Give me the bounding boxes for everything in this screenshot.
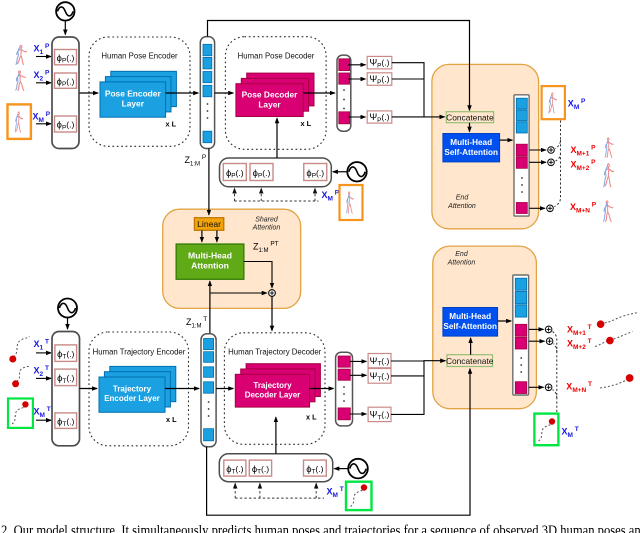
svg-text:Human Pose Decoder: Human Pose Decoder: [238, 52, 315, 61]
plus node pose M+N: [547, 205, 554, 212]
pose figure 1: [16, 45, 27, 64]
Shared Attention container: [163, 209, 301, 308]
svg-text:Human Pose Encoder: Human Pose Encoder: [101, 52, 178, 61]
Psi-P box 1: [367, 56, 392, 69]
svg-text:ϕP(.): ϕP(.): [253, 167, 271, 180]
dashed residual from XM traj box to plus nodes: [553, 332, 557, 412]
trajectory sketch M (end attention): [539, 424, 552, 441]
arrow Concatenate up to MHSA (bottom): [470, 338, 472, 355]
wire column to encoder: [80, 92, 99, 94]
wire Z top to Concatenate (long top wire): [208, 21, 470, 111]
wire encoder to Z traj column: [165, 388, 199, 390]
trajectory sketch M: [12, 407, 25, 425]
predicted trajectory sketch 2: [595, 332, 633, 347]
green frame XM trajectory (input): [8, 399, 33, 428]
Trajectory Encoder Layer stack: [99, 366, 176, 412]
svg-text:Trajectory: Trajectory: [113, 385, 152, 394]
phi-T box 1: [55, 345, 77, 362]
Human Pose Decoder dashed container: [225, 37, 326, 150]
wire decoder to output tokens (traj): [310, 388, 334, 390]
phi-P row box 1: [223, 164, 246, 181]
Multi-Head Self-Attention box (top): [443, 134, 500, 162]
Multi-Head Self-Attention box (bottom): [443, 308, 498, 337]
Psi-T box 1: [368, 354, 391, 368]
svg-text:Trajectory: Trajectory: [253, 381, 292, 390]
svg-text:ϕP(.): ϕP(.): [57, 119, 75, 132]
predicted pose figure 1: [605, 138, 613, 158]
pose decoder output token column: [337, 55, 351, 131]
Psi-P box 3: [367, 111, 392, 123]
svg-text:Multi-Head: Multi-Head: [188, 251, 232, 261]
dashed residual from XM pose box to plus nodes: [555, 121, 560, 149]
Concatenate box (bottom): [447, 355, 493, 367]
wire Z traj bottom to Concatenate (long bottom wire): [207, 369, 470, 515]
dashed XM feed risers (trajectory): [234, 484, 236, 499]
predicted pose figure 3: [604, 201, 613, 222]
End Attention container (pose, top right): [432, 64, 539, 228]
orange frame XM pose (decoder query): [340, 185, 363, 220]
svg-text:ϕT(.): ϕT(.): [57, 348, 74, 361]
plus node traj M+N: [545, 384, 552, 391]
arrow X1 to phi: [36, 56, 51, 58]
arrow XM to phi-T: [36, 419, 51, 421]
Z pose memory column: [200, 37, 214, 149]
wire Z traj to trajectory decoder: [216, 388, 233, 390]
wire Z pose bottom to Linear: [208, 149, 210, 215]
wires Psi-T outputs to Concatenate (bottom): [391, 361, 445, 415]
wire decoder to output tokens: [303, 92, 335, 94]
wire Z to pose decoder: [215, 92, 234, 94]
arrows Linear to Multi-Head Attention: [201, 231, 203, 242]
Psi-P box 2: [367, 73, 392, 86]
svg-text:End: End: [455, 251, 469, 258]
green frame XM trajectory (end attention): [534, 414, 558, 446]
green frame XM trajectory (decoder query): [346, 482, 372, 510]
phi-P box 1: [55, 50, 77, 65]
arrow X2 to phi: [36, 82, 51, 84]
Psi-T box 2: [368, 369, 391, 384]
arrows tokens to plus nodes (pose outputs): [529, 149, 546, 151]
Human Trajectory Decoder dashed container: [224, 333, 325, 445]
trajectory sketch M (decoder query): [351, 490, 364, 507]
svg-text:Multi-Head: Multi-Head: [450, 138, 492, 147]
svg-text:Human Trajectory Decoder: Human Trajectory Decoder: [228, 348, 322, 357]
end attention token column (top): [514, 95, 529, 216]
Trajectory Decoder Layer stack: [235, 364, 320, 407]
arrows tokens to plus nodes (traj outputs): [529, 328, 544, 330]
svg-text:ϕT(.): ϕT(.): [306, 463, 323, 476]
sine generator (pose decoder query): [347, 162, 366, 181]
svg-text:Pose Decoder: Pose Decoder: [242, 90, 299, 100]
dashed XM feed risers (pose): [234, 189, 236, 202]
svg-text:Attention: Attention: [191, 261, 229, 271]
svg-text:Self-Attention: Self-Attention: [444, 148, 498, 157]
svg-text:Human Trajectory Encoder: Human Trajectory Encoder: [93, 348, 186, 357]
svg-text:x L: x L: [301, 119, 312, 128]
trajectory sketch 2: [17, 366, 31, 382]
wire MHA to plus node: [244, 262, 272, 288]
Z pose tokens: [203, 44, 212, 142]
svg-text:ϕT(.): ϕT(.): [57, 372, 74, 385]
sine generator (trajectory decoder query): [348, 459, 368, 479]
plus node pose M+2: [548, 159, 555, 166]
svg-text:Decoder Layer: Decoder Layer: [245, 391, 301, 400]
wire phi-T row up into trajectory decoder stack: [275, 417, 277, 454]
plus node traj M+1: [545, 326, 552, 333]
arrow sine to phi row: [333, 171, 347, 173]
arrows tokens to Psi-P: [348, 64, 365, 66]
plus node (shared attention): [269, 290, 276, 297]
phi-P box 3: [55, 116, 77, 132]
svg-text:Shared: Shared: [255, 217, 279, 224]
pose figure M (decoder query): [346, 192, 353, 213]
predicted trajectory sketch 1: [605, 313, 639, 324]
svg-text:x L: x L: [166, 120, 177, 129]
End Attention container (trajectory, bottom right): [433, 246, 537, 409]
svg-text:x L: x L: [166, 415, 177, 424]
svg-text:Attention: Attention: [447, 203, 476, 210]
svg-text:ϕP(.): ϕP(.): [57, 52, 75, 65]
svg-text:ϕP(.): ϕP(.): [226, 167, 244, 180]
dashed XM feed horizontal (trajectory): [235, 497, 324, 499]
phi-P row box 2: [250, 164, 273, 181]
wire phi-T column to encoder: [80, 388, 98, 390]
svg-text:Pose Encoder: Pose Encoder: [105, 89, 162, 99]
predicted trajectory sketch 3: [600, 380, 627, 388]
wire sine to phi-T column: [67, 318, 69, 329]
orange frame XM pose (end attention): [542, 86, 565, 119]
svg-text:ϕP(.): ϕP(.): [57, 75, 75, 88]
phi-P row container (decoder query input): [220, 158, 332, 187]
Human Trajectory Encoder dashed container: [89, 332, 189, 446]
arrow XM to phi: [36, 123, 51, 125]
pose figure 2: [16, 71, 26, 91]
sine generator (trajectory input): [58, 299, 77, 318]
phi-T row box 2: [249, 460, 271, 476]
phi-T box 3: [55, 413, 77, 429]
Concatenate box (top): [446, 112, 493, 123]
trajectory decoder output token column: [336, 352, 353, 426]
arrow MHSA to token column (bottom): [498, 320, 512, 322]
wire plus node down to trajectory decoder: [271, 296, 273, 330]
phi-T row box 1: [224, 460, 246, 476]
svg-text:Linear: Linear: [197, 219, 221, 229]
svg-text:Attention: Attention: [447, 260, 476, 267]
phi-T box 2: [55, 369, 77, 386]
svg-text:Multi-Head: Multi-Head: [449, 312, 491, 321]
svg-text:Concatenate: Concatenate: [446, 112, 494, 122]
svg-text:Layer: Layer: [258, 100, 281, 110]
svg-text:ϕT(.): ϕT(.): [226, 463, 243, 476]
arrow Concatenate to MHSA (top): [469, 123, 471, 132]
arrow X1 to phi-T: [36, 352, 51, 354]
phi-P box 2: [55, 73, 77, 88]
svg-text:ϕT(.): ϕT(.): [57, 415, 74, 428]
svg-text:Concatenate: Concatenate: [446, 356, 494, 366]
svg-text:ϕP(.): ϕP(.): [306, 167, 324, 180]
svg-text:2. Our model structure. It s: 2. Our model structure. It simultaneousl…: [1, 523, 640, 533]
trajectory sketch 1: [14, 337, 30, 358]
Z trajectory memory column: [201, 334, 216, 447]
svg-text:End: End: [456, 195, 470, 202]
pose figure M: [15, 112, 23, 132]
svg-text:x L: x L: [306, 413, 317, 422]
phi-T row box 3: [304, 460, 327, 476]
dashed XM feed horizontal (pose): [235, 200, 319, 202]
predicted pose figure 2: [604, 164, 614, 187]
phi-P input column: [52, 37, 79, 149]
phi-T input column: [52, 332, 80, 446]
svg-text:Attention: Attention: [252, 225, 281, 232]
wire Z traj up into MHA: [209, 281, 211, 333]
arrow sine to phi-T row: [334, 468, 347, 470]
svg-text:Self-Attention: Self-Attention: [443, 322, 497, 331]
wires Psi-P outputs to Concatenate: [392, 63, 445, 117]
wire sine to phi column: [64, 21, 66, 34]
wire phi row up into pose decoder stack: [276, 118, 278, 158]
phi-T row container (decoder query input): [219, 454, 332, 482]
Linear box: [194, 218, 223, 231]
arrow MHSA to token column (top): [500, 139, 513, 141]
svg-text:Encoder Layer: Encoder Layer: [104, 394, 160, 403]
svg-text:Layer: Layer: [122, 99, 145, 109]
Psi-T box 3: [368, 407, 391, 421]
plus node pose M+1: [548, 147, 555, 154]
orange frame around X_M pose: [8, 104, 31, 138]
Pose Encoder Layer stack: [100, 71, 176, 117]
arrow X2 to phi-T: [36, 377, 51, 379]
end attention token column (bottom): [513, 275, 529, 395]
Multi-Head Attention green box: [176, 244, 244, 279]
Human Pose Encoder dashed container: [89, 37, 190, 146]
plus node traj M+2: [546, 338, 553, 345]
arrows tokens to Psi-T: [350, 360, 366, 362]
sine generator (pose input): [56, 2, 74, 20]
phi-P row box 3: [304, 164, 327, 181]
Pose Decoder Layer stack: [236, 73, 314, 116]
svg-text:ϕT(.): ϕT(.): [252, 463, 269, 476]
wire encoder to Z column: [166, 92, 199, 94]
wire Z traj tee to plus node: [210, 292, 267, 294]
pose figure M (end attention): [549, 93, 557, 113]
